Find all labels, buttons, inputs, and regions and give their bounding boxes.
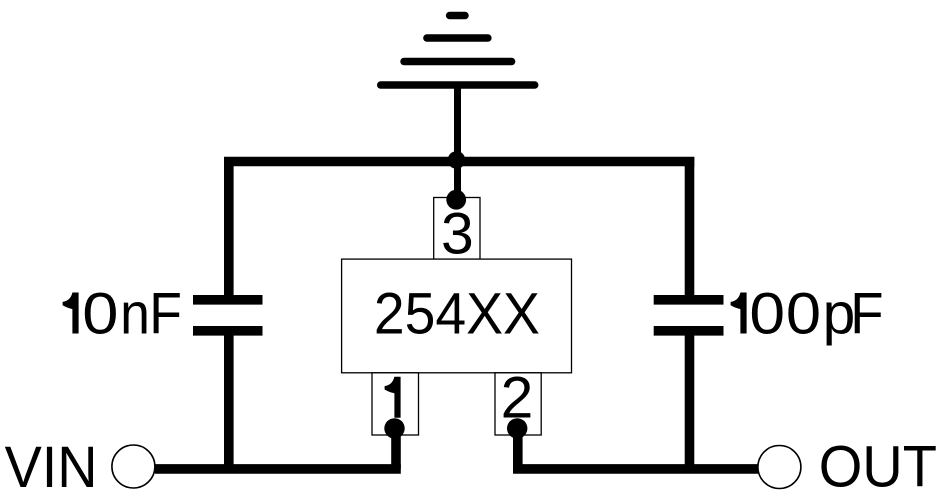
wire left vertical upper bbox=[224, 157, 234, 300]
wire top horizontal bbox=[224, 157, 694, 167]
wire pin 2 drop bbox=[513, 428, 523, 469]
wire right vertical lower bbox=[685, 331, 695, 469]
svg-text:VIN: VIN bbox=[5, 435, 98, 500]
ground bbox=[381, 16, 535, 86]
svg-text:254XX: 254XX bbox=[374, 282, 540, 347]
pin 1 box bbox=[372, 373, 419, 435]
svg-text:0: 0 bbox=[82, 282, 118, 347]
pin 2 box bbox=[495, 373, 541, 435]
pin 1 number bbox=[385, 377, 401, 418]
capacitor 10nF bbox=[193, 300, 263, 331]
wire pin 1 drop bbox=[391, 428, 401, 469]
svg-text:0: 0 bbox=[786, 282, 821, 347]
wire right vertical upper bbox=[685, 157, 695, 300]
capacitor 100pF bbox=[654, 300, 724, 331]
pin 3 box bbox=[434, 198, 480, 260]
wire ground stem bbox=[454, 85, 461, 200]
IC U1 254XX body bbox=[342, 259, 572, 373]
node pin 2 bbox=[507, 418, 527, 438]
terminal OUT circle bbox=[758, 446, 801, 489]
node junction bbox=[448, 151, 466, 169]
label 100pF bbox=[731, 282, 884, 347]
svg-text:OUT: OUT bbox=[819, 434, 937, 499]
wire bottom right bbox=[513, 464, 758, 474]
svg-text:0: 0 bbox=[749, 282, 785, 347]
wire left vertical lower bbox=[224, 331, 234, 469]
svg-text:F: F bbox=[149, 282, 182, 347]
svg-text:3: 3 bbox=[441, 202, 474, 267]
terminal VIN circle bbox=[112, 445, 155, 488]
svg-text:F: F bbox=[850, 282, 883, 347]
node pin 3 bbox=[446, 190, 466, 210]
label 10nF bbox=[63, 282, 182, 347]
svg-text:n: n bbox=[120, 282, 150, 347]
node pin 1 bbox=[384, 418, 404, 438]
wire bottom left bbox=[155, 464, 401, 474]
